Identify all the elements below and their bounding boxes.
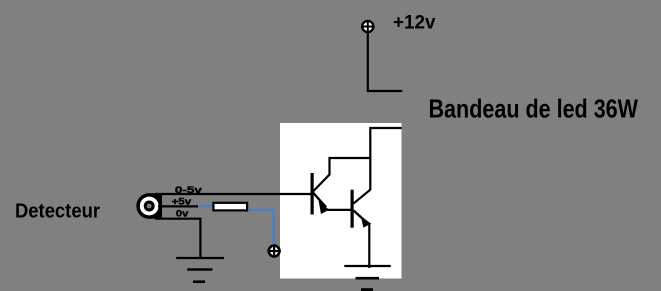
ground (left, below detector) xyxy=(176,258,224,282)
node A: Q1 collector to node xyxy=(313,158,370,192)
+12v supply terminal symbol xyxy=(361,20,374,33)
wire from +12v down then right xyxy=(368,32,403,91)
connector J1 (power jack of detector) xyxy=(136,193,162,219)
node test point (circle-cross) xyxy=(268,244,281,257)
wire 0v from connector right then down xyxy=(155,219,200,258)
wire 0-5v from detector to Q1 base xyxy=(155,193,311,195)
wire blue from resistor right, down to test point xyxy=(248,210,274,244)
svg-text:+12v: +12v xyxy=(393,12,436,33)
wire +5v from connector to resistor (black part) xyxy=(158,205,198,207)
wire collector node: top of box going right, and vertical down xyxy=(370,128,401,190)
ground (right, below Q2) xyxy=(344,266,390,290)
wire Q2 emitter down to ground xyxy=(368,224,370,268)
transistor Q1 xyxy=(311,173,330,215)
wire +5v blue segment into resistor xyxy=(199,205,213,207)
white schematic box xyxy=(280,123,402,279)
svg-text:Detecteur: Detecteur xyxy=(15,200,100,222)
wire Q1 emitter to Q2 base xyxy=(327,209,351,211)
resistor R1 xyxy=(213,203,247,211)
transistor Q2 xyxy=(351,190,372,228)
svg-text:Bandeau de led 36W: Bandeau de led 36W xyxy=(429,93,639,123)
svg-text:0-5v: 0-5v xyxy=(175,185,203,196)
